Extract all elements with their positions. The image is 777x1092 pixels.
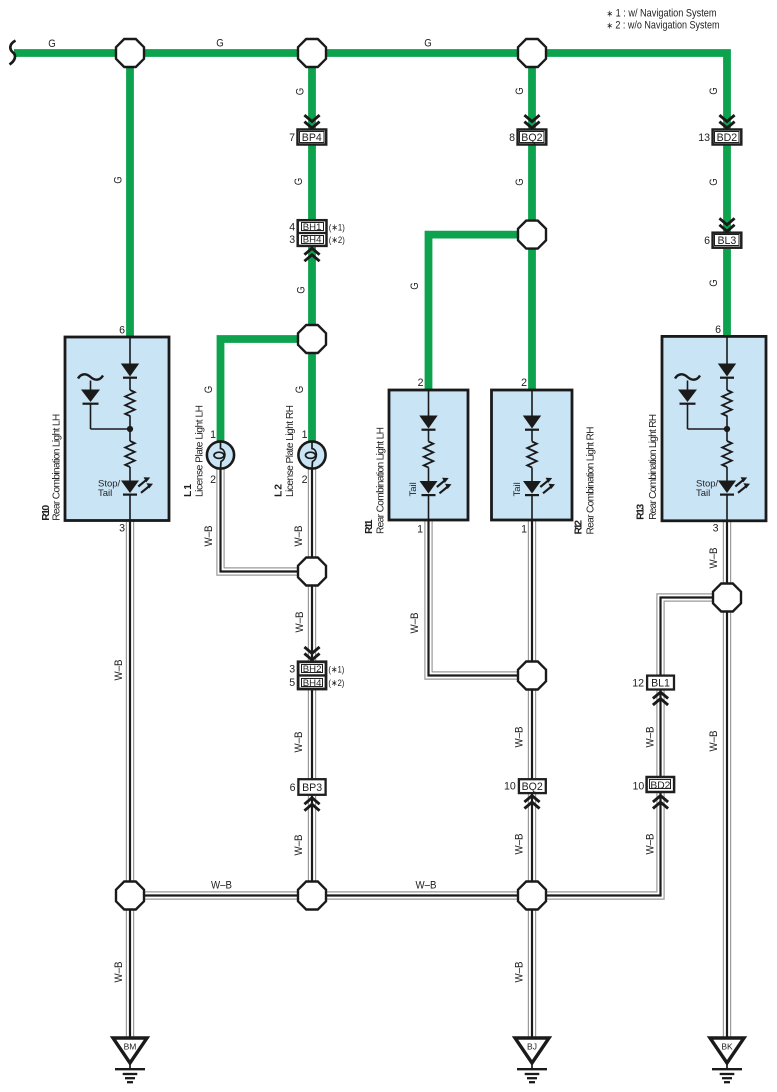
svg-text:12: 12 bbox=[632, 677, 644, 689]
svg-text:R13: R13 bbox=[636, 504, 647, 520]
svg-text:10: 10 bbox=[504, 781, 516, 793]
rear combination light R11 box bbox=[389, 390, 468, 520]
junction J6 bbox=[298, 558, 326, 586]
svg-text:BP3: BP3 bbox=[302, 782, 322, 794]
junction J8 bbox=[713, 584, 741, 612]
connector BH1 / BH4 stack bbox=[298, 220, 327, 246]
R13 left diode bbox=[678, 390, 697, 404]
svg-text:BD2: BD2 bbox=[717, 132, 738, 144]
svg-text:BP4: BP4 bbox=[302, 132, 322, 144]
svg-text:W–B: W–B bbox=[514, 727, 526, 748]
R10 LED arrows bbox=[138, 477, 153, 493]
svg-text:13: 13 bbox=[698, 132, 710, 144]
svg-text:Tail: Tail bbox=[512, 482, 523, 496]
svg-text:(∗2): (∗2) bbox=[328, 678, 344, 689]
R13 stop diode bbox=[718, 364, 736, 378]
arrow into BH2 from above bbox=[304, 647, 319, 660]
svg-text:Rear Combination Light LH: Rear Combination Light LH bbox=[376, 427, 387, 534]
rear combination light R12 box bbox=[492, 390, 573, 520]
svg-text:3: 3 bbox=[289, 234, 295, 246]
wire G from junction J1 to R10 pin 6 bbox=[126, 53, 134, 337]
svg-text:W–B: W–B bbox=[708, 548, 720, 569]
connector BL3 pin 6 bbox=[713, 233, 742, 248]
svg-text:R12: R12 bbox=[574, 520, 585, 535]
svg-text:Rear Combination Light LH: Rear Combination Light LH bbox=[51, 414, 62, 521]
svg-text:3: 3 bbox=[119, 523, 125, 535]
R10 stop/tail LED bbox=[121, 481, 139, 495]
arrow into BQ2 from below bbox=[524, 796, 539, 809]
svg-text:G: G bbox=[48, 38, 56, 50]
connector BQ2 pin 8 bbox=[518, 130, 547, 145]
wire W-B from L2 pin 2 through BH2 BH4 and BP3 to junction J10 bbox=[308, 468, 316, 896]
wire G from junction J2 through BP4 BH1 to junction J5 bbox=[308, 53, 316, 339]
svg-text:7: 7 bbox=[289, 132, 295, 144]
svg-text:6: 6 bbox=[119, 325, 125, 337]
svg-text:6: 6 bbox=[290, 782, 296, 794]
svg-text:1: 1 bbox=[210, 429, 216, 441]
wire W-B from R10 pin 3 to ground BM bbox=[126, 521, 134, 1039]
svg-text:∗ 1 : w/ Navigation System: ∗ 1 : w/ Navigation System bbox=[607, 7, 717, 19]
arrow into BL1 from below bbox=[653, 692, 668, 705]
svg-text:License Plate Light LH: License Plate Light LH bbox=[195, 405, 206, 497]
svg-text:8: 8 bbox=[509, 132, 515, 144]
svg-text:G: G bbox=[708, 178, 720, 186]
svg-text:BM: BM bbox=[124, 1042, 137, 1052]
svg-text:License Plate Light RH: License Plate Light RH bbox=[285, 405, 296, 497]
svg-text:1: 1 bbox=[521, 524, 527, 536]
svg-text:BK: BK bbox=[721, 1042, 733, 1052]
svg-text:G: G bbox=[203, 386, 215, 394]
R10 tilde flasher element bbox=[78, 374, 103, 379]
license plate light L1 bulb bbox=[207, 441, 234, 468]
svg-text:2: 2 bbox=[418, 377, 424, 389]
svg-text:2: 2 bbox=[521, 377, 527, 389]
R10 internal wire bbox=[91, 337, 131, 520]
R12 LED arrows bbox=[540, 478, 555, 494]
svg-text:W–B: W–B bbox=[113, 660, 125, 681]
junction J1 bbox=[116, 39, 144, 67]
junction J7 bbox=[518, 662, 546, 690]
R12 internal wire bbox=[531, 390, 533, 520]
ground BK bbox=[710, 1038, 744, 1082]
svg-text:10: 10 bbox=[633, 781, 645, 793]
svg-text:W–B: W–B bbox=[416, 880, 437, 892]
wire W-B bottom bus from junction J9 to junction J11 bbox=[130, 891, 532, 899]
wire G from junction J5 to L1 pin 1 bbox=[221, 339, 313, 442]
connector BD2 pin 10 bbox=[647, 777, 675, 792]
junction J4 bbox=[518, 221, 546, 249]
junction J9 bbox=[116, 882, 144, 910]
wire G from junction J5 to L2 pin 1 bbox=[308, 339, 316, 442]
svg-text:L 1: L 1 bbox=[183, 484, 194, 497]
svg-text:4: 4 bbox=[289, 221, 295, 233]
svg-text:BL3: BL3 bbox=[717, 235, 736, 247]
svg-text:W–B: W–B bbox=[644, 834, 656, 855]
svg-text:1: 1 bbox=[302, 429, 308, 441]
R10 stop diode D1 bbox=[121, 364, 139, 378]
svg-text:W–B: W–B bbox=[514, 962, 526, 983]
wire break squiggle at left end of top bus bbox=[10, 41, 16, 65]
arrow into BL3 bbox=[719, 218, 734, 231]
svg-text:3: 3 bbox=[289, 663, 295, 675]
svg-text:G: G bbox=[296, 286, 308, 294]
R11 LED arrows bbox=[437, 478, 452, 494]
svg-text:Tail: Tail bbox=[408, 482, 419, 496]
svg-text:(∗1): (∗1) bbox=[329, 222, 345, 233]
svg-text:G: G bbox=[514, 178, 526, 186]
connector BH2 / BH4 stack lower bbox=[298, 662, 326, 689]
svg-text:G: G bbox=[514, 87, 526, 95]
R11 resistor bbox=[424, 442, 434, 468]
connector BP3 pin 6 bbox=[298, 779, 325, 795]
wire W-B from junction J8 through BL1 and BD2 to junction J11 bbox=[532, 598, 727, 896]
svg-text:BJ: BJ bbox=[527, 1042, 537, 1052]
connector BQ2 pin 10 bbox=[519, 779, 546, 793]
R10 resistor lower bbox=[125, 441, 135, 467]
R11 diode bbox=[419, 416, 437, 430]
svg-text:Rear Combination Light RH: Rear Combination Light RH bbox=[648, 414, 659, 520]
node dot inside R13 bbox=[724, 426, 730, 432]
svg-text:W–B: W–B bbox=[294, 612, 306, 633]
svg-text:BD2: BD2 bbox=[650, 780, 670, 791]
svg-text:W–B: W–B bbox=[644, 727, 656, 748]
svg-text:2: 2 bbox=[210, 474, 216, 486]
R10 resistor upper bbox=[125, 390, 135, 416]
arrow into BD2 from below bbox=[653, 796, 668, 809]
svg-text:G: G bbox=[409, 282, 421, 290]
svg-text:W–B: W–B bbox=[514, 834, 526, 855]
svg-text:1: 1 bbox=[417, 524, 423, 536]
svg-text:BH4: BH4 bbox=[303, 678, 322, 689]
R13 resistor lower bbox=[722, 441, 732, 467]
arrow into BP4 bbox=[304, 115, 319, 128]
svg-text:BH2: BH2 bbox=[303, 664, 322, 675]
wire W-B from R13 pin 3 to ground BK bbox=[723, 521, 731, 1038]
junction J11 bbox=[518, 882, 546, 910]
R13 resistor upper bbox=[722, 390, 732, 416]
svg-text:W–B: W–B bbox=[211, 880, 232, 892]
svg-text:G: G bbox=[113, 176, 125, 184]
R13 internal wire bbox=[688, 336, 728, 521]
junction J10 bbox=[298, 882, 326, 910]
license plate light L2 bulb bbox=[298, 441, 325, 468]
ground BM bbox=[113, 1038, 147, 1082]
R13 tilde flasher element bbox=[675, 374, 700, 379]
svg-text:Rear Combination Light RH: Rear Combination Light RH bbox=[586, 427, 597, 535]
node dot inside R10 bbox=[127, 426, 133, 432]
wire G from junction J4 to R11 pin 2 bbox=[429, 235, 533, 390]
svg-text:BL1: BL1 bbox=[651, 677, 670, 689]
svg-text:W–B: W–B bbox=[293, 732, 305, 753]
svg-text:W–B: W–B bbox=[708, 731, 720, 752]
wire W-B from R12 pin 1 through BQ2 to ground BJ bbox=[528, 520, 536, 1038]
wire W-B from L1 pin 2 to junction J6 bbox=[221, 468, 313, 572]
rear combination light R10 box bbox=[65, 337, 169, 521]
R12 tail LED bbox=[523, 481, 541, 495]
svg-text:G: G bbox=[294, 88, 306, 96]
svg-text:G: G bbox=[216, 38, 224, 50]
arrow into BQ2 bbox=[524, 115, 539, 128]
wire G from junction J3 through BQ2 to junction J4 bbox=[528, 53, 536, 235]
arrow into BP3 from below bbox=[304, 798, 319, 811]
svg-text:W–B: W–B bbox=[293, 835, 305, 856]
svg-text:6: 6 bbox=[715, 324, 721, 336]
arrow into BH4 from below bbox=[304, 248, 319, 261]
svg-text:3: 3 bbox=[713, 523, 719, 535]
svg-text:∗ 2 : w/o Navigation System: ∗ 2 : w/o Navigation System bbox=[607, 20, 720, 32]
svg-text:2: 2 bbox=[302, 474, 308, 486]
svg-text:G: G bbox=[708, 279, 720, 287]
ground BJ bbox=[515, 1038, 549, 1082]
svg-text:R11: R11 bbox=[364, 519, 375, 534]
wire W-B from R11 pin 1 to junction J7 bbox=[429, 520, 533, 676]
R11 internal wire bbox=[428, 390, 430, 520]
R13 LED arrows bbox=[735, 477, 750, 493]
svg-text:W–B: W–B bbox=[113, 962, 125, 983]
svg-text:L 2: L 2 bbox=[273, 484, 284, 497]
svg-text:W–B: W–B bbox=[293, 526, 305, 547]
svg-text:5: 5 bbox=[289, 677, 295, 689]
svg-text:G: G bbox=[294, 386, 306, 394]
svg-text:G: G bbox=[708, 87, 720, 95]
R12 diode bbox=[523, 416, 541, 430]
svg-text:BH4: BH4 bbox=[303, 235, 322, 246]
svg-text:G: G bbox=[293, 178, 305, 186]
svg-text:BH1: BH1 bbox=[303, 222, 322, 233]
svg-text:Tail: Tail bbox=[696, 488, 710, 499]
R13 stop/tail LED bbox=[718, 481, 736, 495]
svg-text:Tail: Tail bbox=[98, 488, 112, 499]
svg-text:BQ2: BQ2 bbox=[521, 132, 542, 144]
svg-text:6: 6 bbox=[704, 235, 710, 247]
R12 resistor bbox=[527, 442, 537, 468]
wire G from junction J4 to R12 pin 2 bbox=[528, 235, 536, 390]
arrow into BD2 bbox=[719, 115, 734, 128]
R10 left diode D2 bbox=[81, 390, 100, 404]
junction J2 bbox=[298, 39, 326, 67]
connector BD2 pin 13 bbox=[713, 130, 742, 145]
junction J5 bbox=[298, 325, 326, 353]
R11 tail LED bbox=[420, 481, 438, 495]
svg-text:(∗2): (∗2) bbox=[329, 235, 345, 246]
connector BL1 pin 12 bbox=[647, 676, 674, 690]
svg-text:W–B: W–B bbox=[409, 613, 421, 634]
rear combination light R13 box bbox=[662, 336, 766, 520]
junction J3 bbox=[518, 39, 546, 67]
svg-text:G: G bbox=[424, 38, 432, 50]
wire G main feed top bus to R13 pin 6 bbox=[14, 53, 727, 336]
svg-text:(∗1): (∗1) bbox=[328, 664, 344, 675]
svg-text:BQ2: BQ2 bbox=[522, 781, 543, 793]
svg-text:W–B: W–B bbox=[203, 526, 215, 547]
connector BP4 bbox=[298, 130, 327, 145]
svg-text:R10: R10 bbox=[41, 505, 52, 521]
